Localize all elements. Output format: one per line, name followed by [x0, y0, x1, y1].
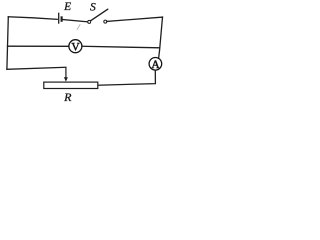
switch S left contact: [88, 20, 91, 23]
rheostat R body: [44, 82, 98, 88]
svg-text:V: V: [71, 42, 80, 54]
wire switch to top-right corner: [107, 17, 163, 21]
svg-text:E: E: [63, 1, 71, 13]
rheostat slider arrowhead: [64, 77, 68, 81]
svg-text:A: A: [151, 59, 160, 71]
svg-text:S: S: [90, 1, 96, 13]
ammeter A circle: [149, 58, 162, 71]
wire right vertical upper: [159, 17, 163, 58]
wire top-left to battery: [8, 17, 57, 20]
battery E plate short: [61, 16, 63, 22]
switch S blade: [91, 9, 108, 21]
wire battery to switch: [63, 20, 88, 22]
wire ammeter to bottom-right corner: [98, 70, 155, 85]
faint smudge above voltmeter: [77, 25, 80, 30]
voltmeter V circle: [69, 40, 82, 53]
rheostat slider arrow stem: [65, 67, 67, 78]
battery E plate long: [58, 13, 60, 24]
wire voltmeter branch left: [8, 45, 69, 47]
wire left vertical: [7, 17, 8, 70]
wire bottom-left horizontal: [7, 67, 66, 69]
svg-text:R: R: [63, 90, 72, 104]
wire voltmeter branch right: [82, 46, 160, 48]
switch S right contact: [104, 20, 107, 23]
